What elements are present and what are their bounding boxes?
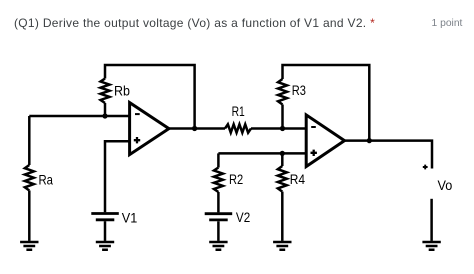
U2 non-inverting pin mark [311, 150, 317, 156]
ground (Vo) [422, 242, 440, 250]
wire U2 feedback top rail [283, 65, 370, 141]
op-amp U2 [306, 115, 344, 167]
node D (R4 / non-inverting junction) [280, 151, 285, 156]
U2 inverting pin mark [311, 126, 316, 128]
U1 inverting pin mark [135, 113, 140, 115]
resistor Ra [25, 165, 34, 191]
svg-text:R1: R1 [232, 103, 245, 119]
wire Vo lower terminal to ground [430, 199, 433, 241]
wire V1 to ground [104, 221, 107, 241]
U1 non-inverting pin mark [134, 137, 140, 143]
wire Rb to inverting node [104, 103, 107, 116]
ground (V1) [96, 242, 114, 250]
ground (V2) [209, 242, 227, 250]
node B (U1 output / feedback junction) [192, 126, 197, 131]
svg-text:R3: R3 [292, 82, 306, 98]
wire U1 feedback top rail [105, 65, 195, 129]
node A (Rb / inverting input junction) [102, 113, 107, 118]
resistor R3 [278, 79, 287, 105]
svg-text:R4: R4 [290, 171, 305, 187]
battery V2 positive plate [205, 212, 233, 215]
wire R1 to U2 inverting input [251, 127, 306, 130]
resistor R1 [225, 124, 251, 132]
wire R2 top [217, 153, 220, 167]
node C (R1 / R3 / U2 inverting junction) [280, 126, 285, 131]
op-amp U1 [130, 103, 169, 155]
svg-text:V1: V1 [122, 210, 138, 226]
wire R3 to inverting node [281, 105, 284, 129]
wire U1 output to R1 [169, 127, 225, 130]
svg-text:Ra: Ra [39, 172, 54, 188]
resistor R2 [214, 168, 223, 193]
Vo plus terminal mark [423, 165, 428, 170]
wire R4 top [281, 153, 284, 166]
wire R4 to ground [281, 192, 284, 241]
wire U1 non-inverting input to V1 [105, 141, 130, 212]
node E (U2 output / feedback junction) [367, 138, 372, 143]
wire U2 non-inverting rail [218, 152, 306, 155]
ground (Ra) [20, 242, 38, 250]
svg-text:V2: V2 [236, 209, 250, 225]
ground (R4) [273, 242, 291, 250]
svg-text:Rb: Rb [114, 83, 130, 99]
wire Ra to ground [28, 191, 31, 241]
battery V2 negative plate [209, 218, 228, 221]
resistor Rb [101, 79, 110, 104]
battery V1 positive plate [91, 212, 119, 215]
wire U2 output to Vo terminal [345, 141, 433, 169]
resistor R4 [278, 166, 287, 192]
battery V1 negative plate [96, 218, 115, 221]
wire R2 to V2 [217, 192, 220, 212]
svg-text:R2: R2 [229, 171, 243, 187]
svg-text:Vo: Vo [438, 177, 453, 193]
wire inverting input rail [29, 115, 129, 118]
wire Ra top [28, 116, 31, 165]
wire V2 to ground [217, 221, 220, 241]
